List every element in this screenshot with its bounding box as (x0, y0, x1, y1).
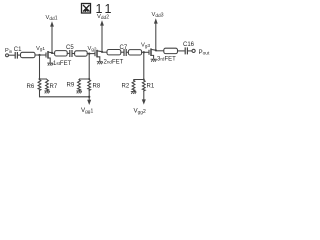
matching box 1 (21, 52, 36, 57)
svg-text:Vg1: Vg1 (36, 46, 45, 52)
matching box 6 (164, 48, 178, 53)
wire (67, 52, 69, 54)
svg-text:Vdd3: Vdd3 (152, 12, 164, 19)
Vgg2 arrow (143, 91, 145, 101)
ground (FET3 source) (151, 59, 157, 62)
ground (FET2 source) (97, 62, 103, 64)
svg-text:Pin: Pin (5, 48, 13, 54)
transistor FET2 (94, 51, 96, 56)
Vdd3 arrow (155, 23, 157, 50)
wire (102, 51, 107, 53)
node drain1 / Vdd1 junction (51, 52, 53, 54)
Vdd1 arrow (51, 26, 53, 53)
wire Vg3 down (134, 52, 144, 79)
wire Vg1 down (40, 55, 48, 79)
wire (156, 50, 164, 52)
Vdd2 arrow (101, 25, 103, 52)
svg-text:Vdd2: Vdd2 (97, 14, 109, 21)
ground (R7) (44, 91, 50, 94)
wire R8 down (88, 90, 90, 97)
wire (72, 53, 74, 55)
wire (127, 51, 129, 53)
wire (188, 50, 192, 52)
title 図11 (82, 4, 91, 14)
wire (121, 51, 124, 53)
wire (35, 54, 46, 56)
wire (87, 53, 95, 55)
matching box 5 (128, 50, 141, 55)
transistor FET3 (148, 50, 150, 55)
matching box 4 (107, 50, 121, 55)
transistor FET1 (45, 53, 47, 58)
wire (142, 51, 149, 53)
svg-text:Vdd1: Vdd1 (46, 15, 58, 22)
wire (178, 50, 185, 52)
resistor R7 (46, 79, 49, 91)
capacitor C7 (124, 49, 126, 56)
node R2/R1 junction (143, 79, 145, 81)
svg-text:Vg3: Vg3 (141, 43, 150, 49)
Vgg1 arrow (88, 97, 90, 101)
node R9/R8 junction (88, 78, 90, 80)
svg-text:R8: R8 (93, 84, 101, 90)
resistor R1 (142, 80, 145, 91)
node Vg3 (143, 51, 145, 53)
ground (FET1 source) (47, 63, 53, 66)
ground (R9) (76, 91, 82, 94)
matching box 3 (75, 51, 88, 56)
wire (9, 54, 15, 56)
input port circle (6, 54, 9, 57)
resistor R9 (78, 79, 81, 91)
svg-text:R6: R6 (27, 84, 35, 90)
svg-text:Vgg1: Vgg1 (81, 107, 93, 115)
node drain3 / Vdd3 junction (155, 49, 157, 51)
svg-text:Vgg2: Vgg2 (134, 108, 146, 116)
resistor R6 (38, 79, 41, 90)
resistor R8 (88, 79, 91, 90)
node Vgg1 junction (88, 96, 90, 98)
wire (52, 52, 55, 54)
svg-text:R9: R9 (67, 83, 75, 89)
node Vg2 (88, 53, 90, 55)
svg-text:3rdFET: 3rdFET (157, 56, 176, 62)
svg-text:1stFET: 1stFET (53, 61, 72, 67)
node Vg1 (38, 54, 40, 56)
wire Vg2 down (79, 54, 89, 79)
ground (R2) (131, 91, 137, 94)
matching box 2 (55, 51, 68, 56)
output port circle (192, 49, 195, 52)
wire R6 to Vgg1 rail (40, 90, 90, 97)
wire (18, 54, 21, 56)
capacitor C1 (15, 52, 17, 59)
resistor R2 (132, 80, 135, 92)
node R6/R7 junction (39, 78, 41, 80)
svg-text:R1: R1 (147, 84, 155, 90)
svg-text:R2: R2 (122, 84, 130, 90)
node drain2 / Vdd2 junction (101, 51, 103, 53)
svg-text:2ndFET: 2ndFET (104, 59, 124, 65)
capacitor C5 (70, 50, 72, 57)
capacitor C16 (185, 47, 187, 54)
svg-text:R7: R7 (50, 84, 58, 90)
svg-text:Pout: Pout (199, 49, 210, 57)
svg-text:C16: C16 (183, 42, 195, 48)
